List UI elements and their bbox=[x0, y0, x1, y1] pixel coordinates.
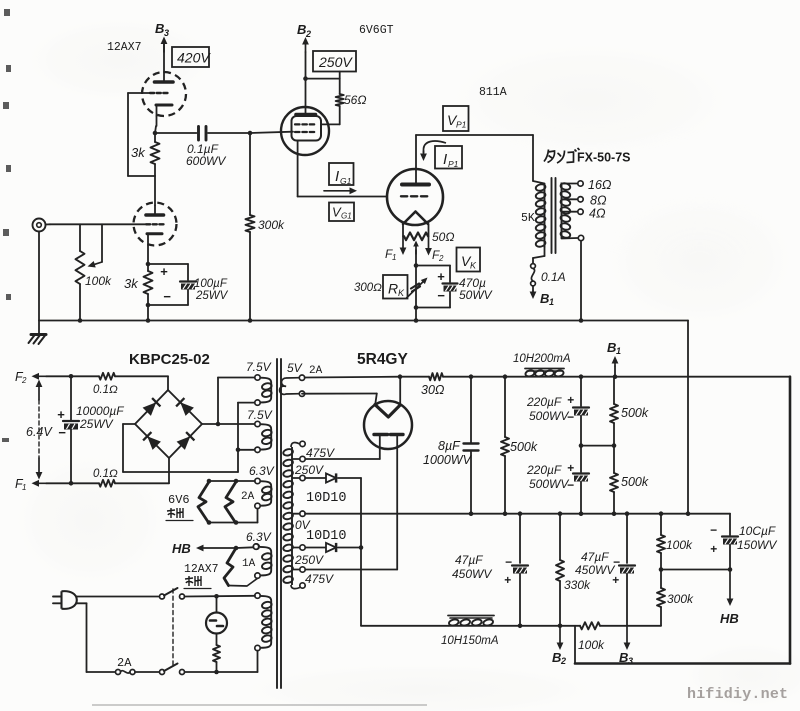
wire box left drop bbox=[574, 626, 576, 664]
V4 plate right bbox=[391, 435, 404, 570]
wire 6V6 heater top bbox=[207, 479, 255, 484]
HV tap 475V a bbox=[293, 456, 305, 461]
twisted pair 12AX7 heater bbox=[224, 548, 258, 586]
svg-text:−: − bbox=[437, 288, 445, 303]
label 12AX7 bbox=[107, 41, 142, 54]
wire box bottom bbox=[575, 662, 790, 665]
svg-text:47µF: 47µF bbox=[581, 550, 609, 564]
wire box right bbox=[789, 377, 792, 664]
svg-text:2: 2 bbox=[560, 656, 566, 666]
capacitor 220uF 500WV a bbox=[526, 377, 589, 446]
arrow HB output bbox=[720, 570, 739, 627]
label 6.4V bbox=[25, 424, 57, 439]
svg-text:5R4GY: 5R4GY bbox=[357, 351, 408, 368]
label VG1 bbox=[329, 203, 354, 222]
V1a plate bbox=[155, 72, 174, 82]
svg-text:1: 1 bbox=[22, 483, 26, 492]
capacitor 100uF 25WV bypass bbox=[148, 264, 229, 305]
svg-text:4Ω: 4Ω bbox=[589, 207, 606, 221]
HV bottom end bbox=[300, 583, 305, 588]
svg-text:10H200mA: 10H200mA bbox=[513, 353, 571, 365]
OPT core bbox=[552, 178, 556, 253]
bus 0V rail bbox=[305, 513, 730, 515]
svg-text:6V6GT: 6V6GT bbox=[359, 24, 394, 37]
HV tap 250V a bbox=[293, 463, 324, 481]
svg-text:2: 2 bbox=[438, 254, 444, 263]
arrow B2 supply bbox=[552, 624, 566, 667]
svg-text:475V: 475V bbox=[305, 572, 334, 586]
node bus joins bbox=[686, 511, 691, 516]
wire switch to primary bottom bbox=[185, 651, 258, 675]
wire V3 plate to OPT bbox=[416, 135, 533, 170]
svg-text:300k: 300k bbox=[667, 592, 694, 606]
label 12AX7 heater bbox=[184, 563, 219, 589]
arrow B3 supply bbox=[619, 626, 633, 666]
svg-text:25WV: 25WV bbox=[79, 417, 114, 431]
svg-text:6V6: 6V6 bbox=[168, 493, 190, 507]
resistor 500k b bbox=[610, 377, 649, 446]
svg-text:8Ω: 8Ω bbox=[590, 194, 607, 208]
label 811A bbox=[479, 86, 507, 99]
svg-text:420V: 420V bbox=[177, 50, 211, 66]
V2 screen grid bbox=[295, 123, 314, 125]
winding 7.5V a bbox=[246, 360, 272, 405]
capacitor 8uF 1000WV bbox=[423, 377, 479, 516]
scan artifacts left edge bbox=[2, 9, 11, 442]
svg-text:−: − bbox=[505, 555, 512, 569]
svg-text:2A: 2A bbox=[309, 365, 323, 377]
arrow F2 output bbox=[15, 370, 46, 385]
node 8uF bbox=[469, 374, 474, 379]
diode 10D10 b bbox=[305, 529, 363, 552]
svg-text:500k: 500k bbox=[621, 406, 649, 420]
svg-text:500WV: 500WV bbox=[529, 477, 569, 491]
OPT primary winding 5K bbox=[521, 183, 546, 247]
resistor 3k plate V1b bbox=[131, 131, 160, 176]
wire 5V to filament junction bbox=[305, 374, 403, 379]
switch S1a bbox=[160, 588, 185, 599]
svg-text:FX-50-7S: FX-50-7S bbox=[577, 151, 631, 165]
HV winding bbox=[283, 443, 300, 589]
capacitor 0.1uF 600WV coupling bbox=[155, 127, 250, 169]
svg-text:50WV: 50WV bbox=[459, 288, 493, 302]
wire plug to switch bbox=[77, 596, 160, 598]
svg-text:220µF: 220µF bbox=[526, 463, 562, 477]
wire F1 rail bbox=[46, 481, 99, 486]
OPT tap 4ohm bbox=[562, 207, 606, 221]
svg-text:16Ω: 16Ω bbox=[588, 178, 612, 192]
choke 10H 150mA bbox=[441, 616, 499, 648]
wire to bridge minus bbox=[115, 458, 169, 483]
svg-text:100k: 100k bbox=[666, 538, 693, 552]
svg-text:30Ω: 30Ω bbox=[421, 383, 445, 397]
wire V1a grid feedback bbox=[128, 93, 155, 176]
resistor 500k c bbox=[610, 446, 649, 516]
arrow F1 output bbox=[15, 477, 46, 492]
wire V2 cathode drop bbox=[297, 141, 299, 197]
scan artifact bottom bbox=[92, 704, 427, 706]
V1b grid bbox=[146, 223, 163, 225]
pilot lamp bbox=[206, 596, 227, 645]
svg-text:100k: 100k bbox=[578, 638, 605, 652]
HV tap 250V b bbox=[293, 545, 324, 567]
svg-text:10CµF: 10CµF bbox=[739, 524, 776, 538]
label 6V6GT bbox=[359, 24, 394, 37]
svg-text:−: − bbox=[163, 289, 171, 304]
arrow F1 bbox=[385, 236, 406, 262]
wire to bridge plus bbox=[115, 376, 168, 390]
resistor 0.1ohm upper bbox=[93, 373, 118, 396]
capacitor 10000uF 25WV bbox=[57, 376, 124, 483]
svg-text:500WV: 500WV bbox=[529, 409, 569, 423]
svg-text:6.3V: 6.3V bbox=[249, 464, 275, 478]
svg-text:B: B bbox=[552, 650, 561, 665]
switch S1b bbox=[160, 664, 185, 675]
svg-text:HB: HB bbox=[720, 611, 739, 626]
rail B2 B3 bbox=[494, 625, 580, 627]
ground rail bbox=[39, 320, 688, 322]
V3 filament leads bbox=[403, 224, 429, 236]
ground symbol bbox=[29, 321, 47, 345]
resistor 100k upper bbox=[657, 511, 693, 571]
svg-text:R: R bbox=[388, 281, 398, 297]
wire ground rail drop right bbox=[687, 321, 689, 514]
OPT tap 8ohm bbox=[562, 194, 607, 208]
svg-text:G1: G1 bbox=[341, 212, 352, 221]
svg-text:3k: 3k bbox=[131, 145, 146, 160]
bridge rectifier KBPC25-02 diamond bbox=[135, 390, 202, 458]
pilot lamp resistor bbox=[213, 645, 220, 672]
svg-text:150WV: 150WV bbox=[737, 538, 777, 552]
mains plug bbox=[53, 591, 77, 609]
svg-text:50Ω: 50Ω bbox=[432, 230, 454, 244]
svg-text:12AX7: 12AX7 bbox=[184, 563, 219, 576]
svg-text:KBPC25-02: KBPC25-02 bbox=[129, 351, 210, 368]
hum pot wiper bbox=[413, 241, 419, 268]
svg-text:+: + bbox=[504, 573, 511, 587]
wire input to grid bbox=[50, 223, 145, 225]
triode V1a 12AX7 upper bbox=[142, 72, 186, 116]
label IG1 arrow bbox=[324, 163, 357, 194]
V1b plate bbox=[146, 206, 164, 216]
label 6V6 heater bbox=[166, 493, 193, 521]
V2 plate bbox=[296, 107, 316, 115]
OPT tap 16ohm bbox=[562, 178, 612, 192]
svg-text:2: 2 bbox=[21, 376, 27, 385]
svg-text:250V: 250V bbox=[318, 54, 353, 70]
capacitor 100uF 150WV bbox=[710, 514, 777, 570]
svg-text:1A: 1A bbox=[242, 558, 256, 570]
tube V3 811A envelope bbox=[387, 169, 443, 225]
wire plug bottom drop bbox=[76, 603, 116, 672]
label KBPC25-02 bbox=[129, 351, 210, 368]
V2 control grid bbox=[295, 131, 314, 133]
winding 6.3V 2A bbox=[241, 464, 275, 509]
svg-text:+: + bbox=[160, 264, 168, 279]
resistor 330k bbox=[556, 511, 591, 625]
HV center tap 0V bbox=[293, 511, 311, 532]
label TANGO FX-50-7S bbox=[544, 148, 631, 165]
svg-text:500k: 500k bbox=[510, 440, 538, 454]
choke 10H 200mA bbox=[513, 353, 571, 377]
svg-text:1: 1 bbox=[549, 297, 554, 307]
svg-text:B: B bbox=[607, 340, 616, 355]
V1a cathode bbox=[156, 105, 172, 116]
potentiometer VR1 100k bbox=[76, 224, 85, 323]
resistor 300k grid bbox=[246, 133, 286, 323]
label 475V top bbox=[306, 446, 335, 460]
svg-text:−: − bbox=[710, 523, 717, 537]
svg-text:K: K bbox=[470, 261, 477, 271]
V3 filament bbox=[403, 212, 428, 225]
winding 7.5V b bbox=[247, 408, 273, 452]
arrow HB heater bbox=[172, 541, 259, 556]
resistor 300k lower bbox=[657, 570, 694, 626]
HV tap top end bbox=[300, 441, 305, 446]
capacitor 47uF 450WV b bbox=[575, 511, 635, 625]
resistor 56ohm screen bbox=[306, 72, 367, 125]
svg-text:10D10: 10D10 bbox=[306, 491, 347, 506]
V4 plate left bbox=[374, 435, 388, 460]
svg-text:3: 3 bbox=[164, 28, 169, 38]
V3 grid bbox=[401, 195, 427, 197]
resistor 3k cathode V1b bbox=[124, 264, 153, 323]
fuse 0.1A bbox=[531, 264, 566, 286]
svg-text:I: I bbox=[443, 151, 447, 168]
svg-text:47µF: 47µF bbox=[455, 553, 483, 567]
label IP1 bbox=[420, 141, 462, 169]
svg-text:811A: 811A bbox=[479, 86, 507, 99]
winding primary bbox=[255, 593, 273, 651]
bridge diode D3 bbox=[143, 432, 161, 450]
svg-text:1: 1 bbox=[392, 253, 396, 262]
rheostat RK 300ohm bbox=[407, 266, 428, 323]
bridge diode D1 bbox=[143, 398, 161, 416]
resistor 500k a bbox=[501, 377, 538, 516]
svg-text:+: + bbox=[57, 407, 65, 422]
svg-text:100µF: 100µF bbox=[194, 278, 228, 290]
svg-text:2A: 2A bbox=[117, 656, 132, 670]
label RK bbox=[354, 275, 408, 299]
label 420V bbox=[172, 47, 211, 67]
svg-text:−: − bbox=[613, 555, 620, 569]
svg-text:5K: 5K bbox=[521, 212, 535, 225]
transformer core bbox=[277, 359, 281, 688]
watermark hifidiy.net bbox=[687, 686, 788, 703]
svg-text:300Ω: 300Ω bbox=[354, 282, 382, 294]
resistor 100k inline bbox=[578, 622, 661, 652]
wire V2 plate to B2 node bbox=[303, 76, 308, 107]
capacitor 220uF 500WV b bbox=[526, 446, 589, 516]
wire OPT primary top lead bbox=[533, 135, 545, 184]
tube V2 6V6GT envelope bbox=[281, 107, 329, 155]
svg-text:7.5V: 7.5V bbox=[247, 408, 273, 422]
svg-text:K: K bbox=[398, 288, 405, 298]
node coupling junction bbox=[248, 131, 253, 136]
svg-text:0.1Ω: 0.1Ω bbox=[93, 468, 118, 480]
svg-text:P1: P1 bbox=[448, 159, 459, 169]
wire F2 rail bbox=[46, 374, 99, 379]
wire cap junction bbox=[579, 443, 617, 448]
V4 filament bbox=[302, 377, 400, 417]
capacitor 47uF 450WV a bbox=[452, 511, 528, 628]
label 5R4GY bbox=[357, 351, 408, 368]
wire V1b cathode node bbox=[146, 245, 151, 266]
V2 beam box bbox=[292, 116, 322, 141]
svg-text:450WV: 450WV bbox=[575, 563, 615, 577]
wire HB mid bbox=[661, 567, 732, 572]
OPT secondary winding bbox=[560, 182, 571, 238]
svg-text:330k: 330k bbox=[564, 578, 591, 592]
wire 6V6 heater bottom bbox=[207, 509, 258, 525]
svg-text:B: B bbox=[297, 22, 306, 37]
wire V1a cathode to node bbox=[155, 116, 157, 133]
wire plate left to 475V tap bbox=[305, 458, 380, 460]
node 500k a bbox=[471, 374, 525, 379]
wire RC network top bbox=[416, 266, 450, 283]
svg-text:+: + bbox=[567, 393, 574, 407]
wire V2 cathode to 811A grid bbox=[298, 196, 387, 198]
supply arrow B2 bbox=[297, 22, 311, 79]
resistor 50ohm hum pot bbox=[404, 230, 454, 244]
svg-text:220µF: 220µF bbox=[526, 395, 562, 409]
wire bridge AC left bbox=[123, 403, 255, 472]
svg-text:250V: 250V bbox=[294, 553, 324, 567]
svg-text:2: 2 bbox=[305, 29, 311, 39]
svg-text:475V: 475V bbox=[306, 446, 335, 460]
measure arrows 6.4V bbox=[36, 380, 43, 480]
svg-text:0.1A: 0.1A bbox=[541, 270, 566, 284]
svg-text:B: B bbox=[540, 291, 549, 306]
svg-text:G1: G1 bbox=[340, 176, 352, 186]
svg-text:10H150mA: 10H150mA bbox=[441, 635, 499, 647]
twisted pair 6V6 heater bbox=[198, 481, 237, 523]
wire rail after choke bbox=[564, 374, 790, 379]
svg-text:+: + bbox=[612, 573, 619, 587]
svg-text:500k: 500k bbox=[621, 475, 649, 489]
wire B3 supply to V1a plate bbox=[163, 43, 165, 72]
capacitor 470u 50WV bbox=[414, 269, 493, 310]
label VK bbox=[457, 248, 481, 272]
svg-text:100k: 100k bbox=[85, 274, 112, 288]
OPT secondary common bbox=[562, 235, 584, 323]
tube V4 5R4GY envelope bbox=[364, 401, 412, 449]
label 250V bbox=[313, 51, 356, 72]
svg-text:+: + bbox=[567, 461, 574, 475]
V1b cathode bbox=[147, 234, 162, 245]
wire diode bus down bbox=[361, 478, 448, 626]
svg-text:B: B bbox=[155, 21, 164, 36]
svg-text:10D10: 10D10 bbox=[306, 529, 347, 544]
svg-text:P1: P1 bbox=[456, 120, 467, 130]
svg-text:+: + bbox=[710, 542, 717, 556]
resistor 30ohm bbox=[400, 373, 471, 397]
wire jack ground drop bbox=[38, 232, 40, 321]
svg-text:12AX7: 12AX7 bbox=[107, 41, 142, 54]
wire bridge AC right bbox=[202, 378, 255, 427]
svg-text:1: 1 bbox=[616, 346, 621, 356]
svg-text:3k: 3k bbox=[124, 276, 139, 291]
arrow B1 down bbox=[530, 286, 554, 307]
fuse 2A mains bbox=[116, 656, 160, 675]
svg-text:−: − bbox=[567, 478, 574, 492]
svg-text:−: − bbox=[58, 425, 66, 440]
triode V1b 12AX7 lower bbox=[134, 203, 177, 246]
supply arrow B3 bbox=[155, 21, 169, 52]
input jack J1 bbox=[33, 219, 51, 232]
winding 6.3V 1A bbox=[242, 530, 272, 578]
svg-text:6.3V: 6.3V bbox=[246, 530, 272, 544]
pot wiper arm bbox=[85, 224, 112, 288]
svg-text:5V: 5V bbox=[287, 361, 303, 375]
bridge diode D4 bbox=[177, 432, 195, 450]
svg-text:450WV: 450WV bbox=[452, 567, 492, 581]
svg-text:300k: 300k bbox=[258, 218, 285, 232]
svg-text:25WV: 25WV bbox=[195, 290, 229, 302]
svg-text:8µF: 8µF bbox=[438, 439, 461, 453]
switch link dashed bbox=[172, 589, 174, 667]
svg-text:7.5V: 7.5V bbox=[246, 360, 272, 374]
bridge diode D2 bbox=[176, 398, 194, 416]
svg-text:250V: 250V bbox=[294, 463, 324, 477]
svg-text:+: + bbox=[437, 269, 445, 284]
winding 5V 2A bbox=[280, 361, 323, 396]
arrow B1 supply bbox=[607, 340, 621, 377]
svg-text:1000WV: 1000WV bbox=[423, 453, 473, 467]
svg-text:56Ω: 56Ω bbox=[344, 93, 366, 107]
V3 plate bbox=[402, 170, 429, 185]
svg-text:−: − bbox=[567, 410, 574, 424]
arrow F2 bbox=[425, 236, 444, 263]
resistor 0.1ohm lower bbox=[93, 468, 118, 487]
V1a grid bbox=[128, 92, 167, 94]
svg-text:HB: HB bbox=[172, 541, 191, 556]
wire V1b plate to V1a junction bbox=[154, 176, 156, 206]
svg-text:0.1Ω: 0.1Ω bbox=[93, 384, 118, 396]
label VP1 bbox=[443, 106, 469, 131]
HV tap 475V b bbox=[293, 567, 334, 586]
diode 10D10 a bbox=[305, 473, 361, 506]
wire plate right to 475V tap bbox=[306, 569, 398, 571]
wire switch to primary top bbox=[185, 594, 256, 599]
svg-text:600WV: 600WV bbox=[186, 154, 226, 168]
svg-text:hifidiy.net: hifidiy.net bbox=[687, 686, 788, 703]
wire to 6V6 grid bbox=[250, 132, 293, 133]
svg-text:10000µF: 10000µF bbox=[76, 404, 124, 418]
wire OPT primary bottom bbox=[533, 248, 545, 264]
svg-text:2A: 2A bbox=[241, 491, 255, 503]
svg-text:I: I bbox=[335, 168, 339, 185]
